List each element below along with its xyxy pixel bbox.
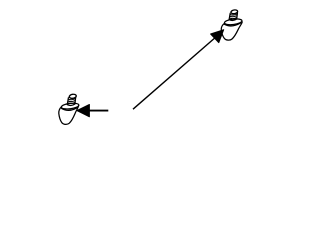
grease fitting U2 (bottom left) — [59, 94, 79, 125]
fitting U2 cap lower edge — [62, 107, 78, 110]
fitting U1 neck left wall — [229, 13, 230, 19]
fitting U2 neck left wall — [67, 98, 68, 105]
fitting U1 thread rib 1 — [230, 14, 237, 15]
fitting U1 neck right wall — [236, 13, 239, 19]
fitting U2 neck bottom edge — [67, 104, 75, 105]
fitting U1 thread rib 2 — [230, 16, 237, 17]
fitting U1 thread rib 3 — [229, 17, 237, 18]
arrow leader line to fitting U2 — [89, 110, 108, 112]
fitting U1 body outline — [221, 22, 242, 40]
arrowhead pointing at fitting U2 — [77, 105, 90, 117]
grease fitting U1 (top right) — [221, 9, 242, 40]
arrowhead pointing at fitting U1 — [211, 30, 224, 43]
fitting U2 thread rib 2 — [68, 100, 75, 101]
fitting U1 cap lower edge — [224, 23, 240, 26]
arrow leader line to fitting U1 — [133, 37, 217, 110]
fitting U2 tip cap — [69, 94, 77, 99]
fitting U2 thread rib 1 — [68, 99, 75, 100]
fitting U2 neck right wall — [74, 97, 77, 104]
fitting U2 cap top rim — [61, 102, 79, 110]
fitting U2 thread rib 3 — [68, 102, 76, 103]
fitting U1 neck bottom edge — [229, 19, 237, 20]
fitting U1 cap top rim — [224, 18, 242, 26]
fitting U2 body outline — [59, 106, 79, 125]
fitting U1 tip cap — [231, 9, 238, 14]
